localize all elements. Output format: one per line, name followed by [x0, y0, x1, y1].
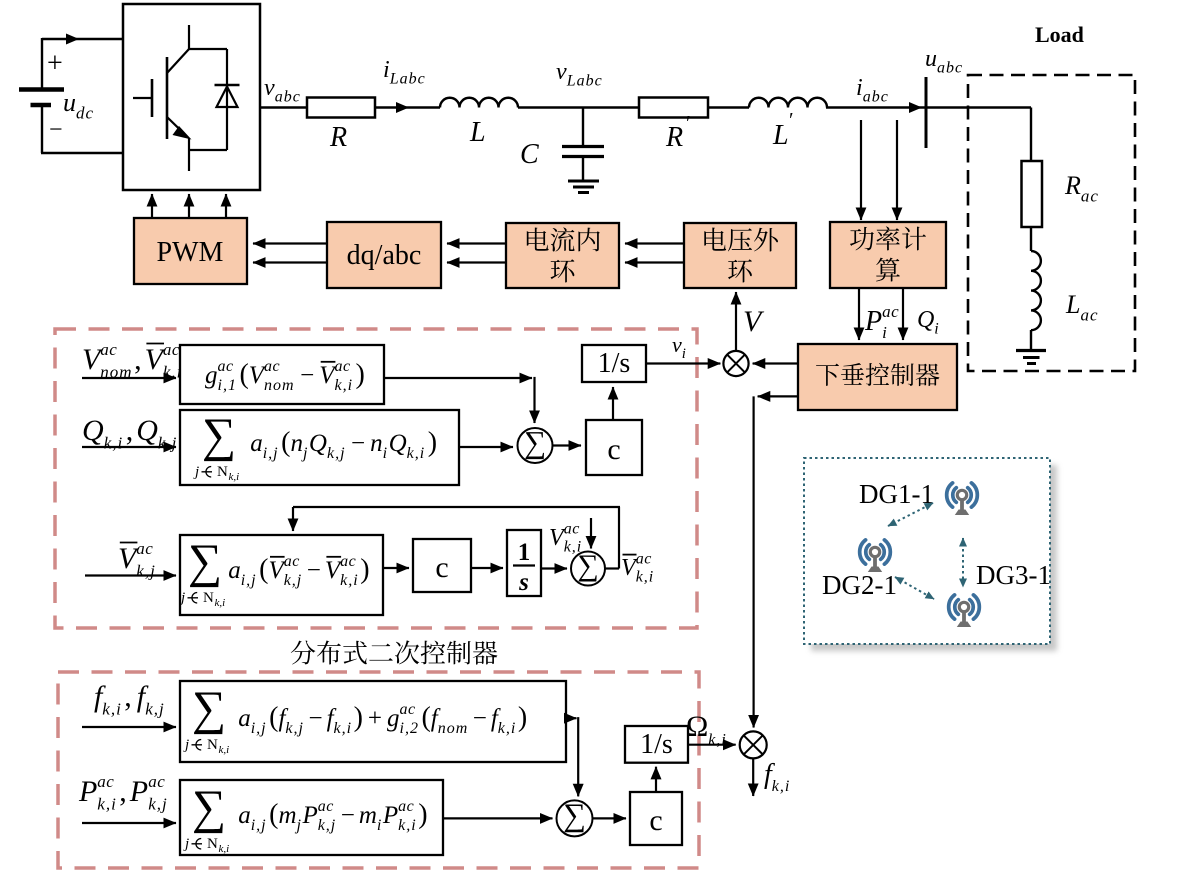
block dq/abc	[327, 222, 441, 288]
svg-text:dq/abc: dq/abc	[347, 240, 422, 271]
svg-text:i: i	[383, 445, 388, 462]
svg-text:N: N	[203, 590, 214, 606]
block sum f	[180, 681, 566, 762]
block sum nQ	[180, 410, 459, 485]
svg-text:−: −	[300, 362, 314, 389]
block c gain 3	[630, 792, 682, 845]
svg-text:v: v	[556, 59, 567, 85]
svg-text:i: i	[383, 57, 390, 83]
caption distributed secondary controller	[291, 640, 316, 664]
summer sigma 2	[571, 552, 605, 586]
svg-text:): )	[356, 359, 365, 390]
block power calculation	[830, 222, 946, 288]
svg-text:k,i: k,i	[215, 597, 226, 609]
svg-text:′: ′	[686, 111, 691, 135]
svg-text:(: (	[240, 359, 249, 390]
dotted link DG1 DG2	[888, 503, 933, 526]
svg-text:1: 1	[518, 539, 531, 566]
wire input P arrow	[82, 822, 176, 824]
antenna DG1	[947, 483, 978, 515]
bus bar node u_abc	[925, 77, 928, 148]
wire multiplier to voltage loop	[735, 292, 737, 351]
svg-text:c: c	[435, 551, 448, 584]
svg-text:ac: ac	[100, 340, 117, 359]
wire input f arrow	[82, 726, 176, 728]
svg-text:k,i: k,i	[229, 471, 240, 483]
svg-text:,: ,	[124, 680, 132, 713]
svg-text:k,i: k,i	[335, 377, 354, 394]
load dashed box	[968, 75, 1135, 371]
measurement tap wires to power calc	[860, 120, 862, 220]
block c gain 1	[586, 420, 642, 475]
svg-text:u: u	[925, 46, 937, 72]
svg-text:Q: Q	[917, 307, 934, 333]
svg-text:ac: ac	[400, 701, 416, 718]
svg-text:i: i	[934, 321, 939, 338]
svg-text:k,j: k,j	[285, 720, 304, 737]
wire inverter output	[260, 106, 307, 108]
wire dq/abc to PWM	[253, 242, 327, 244]
wire Q_i to droop	[902, 288, 904, 340]
svg-text:N: N	[217, 464, 228, 480]
wire L to R-prime	[518, 106, 639, 108]
svg-text:Q: Q	[136, 414, 158, 447]
svg-text:C: C	[520, 139, 539, 170]
wire battery minus to inverter	[41, 152, 124, 154]
svg-text:): )	[428, 427, 437, 458]
svg-text:DG3-1: DG3-1	[976, 560, 1051, 590]
wire summer to c block	[553, 444, 582, 446]
svg-text:k,j: k,j	[284, 572, 303, 589]
svg-text:i: i	[882, 323, 888, 342]
svg-text:,: ,	[126, 414, 134, 447]
svg-text:k,i: k,i	[102, 699, 122, 718]
svg-text:ac: ac	[148, 772, 165, 791]
svg-text:k,i: k,i	[219, 744, 230, 756]
wire c to integrator 1	[612, 387, 614, 420]
wire P_i to droop	[858, 288, 860, 340]
summer sigma 1	[518, 428, 553, 463]
svg-text:,: ,	[134, 343, 142, 376]
DG graph dotted box	[804, 458, 1050, 644]
block c gain 2	[413, 539, 471, 592]
svg-text:∑: ∑	[188, 535, 222, 588]
block g_i1	[180, 345, 384, 404]
inverter bridge box	[123, 4, 260, 190]
svg-text:s: s	[518, 569, 529, 596]
ground load	[1016, 349, 1046, 352]
svg-text:a: a	[228, 557, 241, 584]
svg-text:ac: ac	[136, 539, 153, 558]
svg-text:abc: abc	[937, 60, 963, 77]
resistor R-prime	[639, 98, 708, 118]
svg-text:m: m	[359, 802, 377, 829]
block PWM	[134, 218, 247, 284]
svg-text:ac: ac	[398, 798, 414, 815]
svg-text:i,j: i,j	[251, 720, 267, 737]
wire summer2 output Vbar_ki	[605, 567, 619, 569]
svg-text:c: c	[607, 433, 620, 466]
wire bus to load	[926, 106, 1031, 108]
svg-text:P: P	[302, 802, 318, 829]
wire droop to multiplier	[753, 362, 798, 364]
svg-text:ac: ac	[318, 798, 334, 815]
svg-text:i,j: i,j	[241, 572, 257, 589]
svg-text:u: u	[63, 88, 76, 117]
svg-text:k,i: k,i	[219, 843, 230, 855]
svg-text:v: v	[672, 332, 682, 357]
svg-text:P: P	[382, 802, 398, 829]
svg-text:): )	[360, 554, 369, 585]
summer sigma 3	[557, 800, 593, 836]
svg-text:ac: ac	[340, 553, 356, 570]
svg-text:k,i: k,i	[334, 720, 353, 737]
svg-text:∑: ∑	[202, 409, 236, 462]
svg-text:Q: Q	[82, 414, 104, 447]
svg-text:∑: ∑	[192, 781, 226, 834]
svg-text:∑: ∑	[524, 424, 546, 459]
multiplier node f	[740, 731, 767, 758]
resistor R_ac	[1022, 161, 1043, 227]
svg-text:): )	[418, 799, 427, 830]
svg-text:Load: Load	[1035, 22, 1084, 47]
block integrator 1/s 1	[582, 345, 646, 382]
svg-text:i,j: i,j	[251, 817, 267, 834]
multiplier node V	[723, 351, 748, 376]
svg-text:ac: ac	[1081, 186, 1099, 205]
dashed box voltage secondary controller	[55, 329, 697, 628]
svg-text:(: (	[422, 702, 431, 733]
svg-text:n: n	[370, 430, 383, 457]
svg-text:L: L	[772, 120, 789, 151]
svg-text:ac: ac	[335, 358, 351, 375]
svg-text:k,i: k,i	[104, 433, 124, 452]
svg-text:): )	[518, 702, 527, 733]
svg-text:a: a	[250, 430, 263, 457]
wire V_ki into summer2	[590, 518, 592, 549]
svg-text:DG1-1: DG1-1	[859, 479, 934, 509]
svg-text:Q: Q	[389, 430, 407, 457]
wire c3 to integrator 3	[655, 767, 657, 792]
svg-text:1/s: 1/s	[598, 348, 631, 379]
svg-text:c: c	[649, 804, 662, 837]
svg-text:P: P	[78, 775, 97, 808]
wire integrator to multiplier v_i	[646, 362, 720, 364]
svg-text:i,2: i,2	[400, 720, 419, 737]
svg-text:Q: Q	[309, 430, 327, 457]
svg-text:m: m	[279, 802, 297, 829]
dotted link DG1 DG3	[962, 538, 964, 587]
svg-text:ac: ac	[564, 521, 580, 538]
svg-text:k,j: k,j	[327, 445, 346, 462]
wire Q-block to summer	[459, 446, 513, 448]
svg-text:i: i	[682, 346, 687, 362]
svg-text:ac: ac	[1081, 305, 1099, 324]
transistor Q1 IGBT	[133, 97, 151, 99]
wire L-prime to bus with arrow	[826, 106, 926, 108]
wire g-block to summer corner	[384, 377, 532, 379]
diode D1 anti-parallel	[189, 48, 227, 50]
antenna DG2	[860, 540, 891, 572]
svg-text:−: −	[49, 117, 63, 143]
wire L_ac to ground	[1030, 330, 1032, 350]
svg-text:N: N	[207, 836, 218, 852]
svg-text:k,i: k,i	[564, 539, 583, 556]
inductor L-prime	[749, 98, 827, 108]
block sum P	[180, 780, 443, 855]
block current inner loop	[506, 223, 619, 288]
svg-text:−: −	[307, 557, 321, 584]
svg-text:abc: abc	[863, 89, 889, 106]
svg-text:ac: ac	[97, 772, 114, 791]
capacitor C	[562, 145, 604, 148]
svg-text:−: −	[309, 705, 323, 732]
wire P-block to summer3	[443, 817, 553, 819]
svg-text:j: j	[295, 817, 302, 834]
svg-text:k,i: k,i	[636, 569, 655, 586]
DC source battery u_dc	[41, 38, 43, 88]
block integrator 1 over s fraction	[507, 530, 541, 596]
wire R-prime to L-prime	[708, 106, 749, 108]
svg-text:k,j: k,j	[148, 794, 168, 813]
svg-text:ac: ac	[264, 358, 280, 375]
wire c2 to integrator 2	[471, 567, 503, 569]
svg-text:PWM: PWM	[157, 237, 224, 268]
svg-text:(: (	[281, 427, 290, 458]
svg-text:R: R	[665, 122, 683, 153]
svg-text:g: g	[205, 362, 218, 389]
svg-text:i,1: i,1	[218, 377, 237, 394]
wire droop to frequency line	[758, 395, 798, 397]
svg-text:L: L	[1065, 290, 1080, 319]
wire integrator3 to multiplier f	[688, 744, 736, 746]
svg-text:L: L	[469, 117, 486, 148]
svg-text:∑: ∑	[192, 682, 226, 735]
svg-text:g: g	[387, 705, 400, 732]
wire R to L with arrow	[375, 106, 440, 108]
svg-text:Ω: Ω	[686, 710, 708, 743]
svg-text:ac: ac	[882, 302, 899, 321]
wire f-block to corner down to summer3	[566, 717, 577, 719]
svg-text:−: −	[351, 430, 365, 457]
svg-text:−: −	[473, 705, 487, 732]
svg-text:k,i: k,i	[340, 572, 359, 589]
svg-text:k,i: k,i	[407, 445, 426, 462]
svg-text:P: P	[864, 306, 882, 337]
feedback wire Vbar_ki to block	[618, 507, 620, 569]
wire input Q arrow	[82, 446, 176, 448]
wire current loop to dq/abc	[447, 242, 506, 244]
dashed box frequency secondary controller	[58, 672, 699, 868]
svg-text:N: N	[207, 737, 218, 753]
svg-text:v: v	[264, 75, 275, 101]
svg-text:nom: nom	[264, 377, 295, 394]
svg-text:R: R	[1064, 171, 1081, 200]
svg-text:nom: nom	[438, 720, 469, 737]
svg-text:ac: ac	[284, 553, 300, 570]
wire integrator2 to summer2	[541, 567, 567, 569]
ground capacitor	[568, 180, 599, 183]
wire input Vbar arrow	[85, 574, 176, 576]
svg-text:k,j: k,j	[158, 433, 178, 452]
svg-text:ac: ac	[636, 551, 652, 568]
svg-text:n: n	[291, 430, 304, 457]
svg-text:abc: abc	[275, 89, 301, 106]
svg-text:Labc: Labc	[389, 71, 426, 88]
wire R_ac to L_ac	[1030, 227, 1032, 251]
svg-text:Labc: Labc	[566, 73, 603, 90]
svg-text:+: +	[47, 48, 63, 79]
PWM gate drive arrows	[151, 194, 153, 218]
svg-text:ac: ac	[163, 340, 180, 359]
svg-text:k,j: k,j	[145, 699, 165, 718]
svg-text:dc: dc	[76, 103, 94, 122]
svg-text:j: j	[301, 445, 308, 462]
inductor L_ac	[1031, 251, 1041, 330]
wire input Vnom arrow	[82, 377, 176, 379]
wire Vbar block to c2	[383, 567, 409, 569]
svg-text:−: −	[341, 802, 355, 829]
node filter capacitor branch	[582, 108, 584, 147]
wire voltage loop to current loop	[625, 242, 684, 244]
svg-text:R: R	[329, 122, 347, 153]
svg-text:+: +	[368, 705, 382, 732]
block sum Vbar	[180, 535, 383, 615]
svg-text:i: i	[856, 75, 863, 101]
svg-text:ac: ac	[218, 358, 234, 375]
svg-text:1/s: 1/s	[640, 729, 673, 760]
svg-text:∑: ∑	[563, 796, 586, 832]
svg-text:): )	[354, 702, 363, 733]
svg-text:a: a	[238, 802, 251, 829]
svg-text:′: ′	[789, 108, 794, 132]
svg-text:(: (	[259, 554, 268, 585]
svg-text:k,j: k,j	[318, 817, 337, 834]
svg-text:k,i: k,i	[772, 778, 791, 795]
antenna DG3	[949, 595, 980, 627]
svg-text:DG2-1: DG2-1	[822, 570, 897, 600]
DG graph box shadow	[811, 465, 1057, 651]
svg-text:i,j: i,j	[263, 445, 279, 462]
svg-text:,: ,	[119, 775, 127, 808]
block voltage outer loop	[684, 223, 796, 288]
block integrator 1/s 3	[625, 726, 688, 763]
svg-text:P: P	[129, 775, 148, 808]
block droop controller	[798, 344, 957, 410]
svg-text:(: (	[269, 702, 278, 733]
svg-text:i: i	[377, 817, 382, 834]
svg-text:(: (	[269, 799, 278, 830]
svg-text:k,j: k,j	[136, 561, 156, 580]
svg-text:k,i: k,i	[398, 817, 417, 834]
wire summer3 to c3	[593, 817, 627, 819]
svg-text:k,i: k,i	[708, 731, 727, 748]
svg-text:a: a	[238, 705, 251, 732]
svg-text:k,i: k,i	[97, 794, 117, 813]
svg-text:k,i: k,i	[498, 720, 517, 737]
dotted link DG2 DG3	[895, 577, 934, 599]
inductor L	[440, 98, 518, 108]
wire multiplier f output	[752, 758, 754, 796]
resistor R	[307, 98, 375, 118]
wire battery plus to inverter	[42, 38, 123, 40]
